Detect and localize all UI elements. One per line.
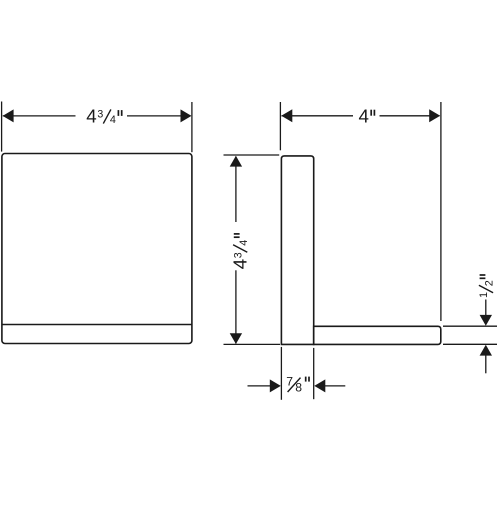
svg-text:4: 4 — [238, 240, 250, 246]
dim A line right segment — [127, 115, 191, 117]
dim C extension line bottom — [224, 343, 281, 345]
dim C arrow up — [230, 156, 242, 167]
dim A extension line left — [1, 102, 3, 152]
svg-text:2: 2 — [484, 280, 496, 286]
svg-text:4: 4 — [110, 114, 116, 126]
side view shelf profile — [314, 326, 441, 344]
dim C line upper segment — [235, 157, 237, 223]
dim A label 4 3/4 inch — [86, 106, 121, 127]
svg-text:3: 3 — [97, 109, 103, 121]
dim B arrow right — [429, 109, 440, 122]
dim D arrow up — [480, 345, 492, 356]
dim E tail left — [248, 385, 271, 387]
dim C label 4 3/4 inch rotated — [229, 234, 250, 269]
dim B arrow left — [281, 109, 292, 122]
dim E extension line left — [280, 347, 282, 400]
svg-text:4: 4 — [86, 106, 96, 127]
dim D line above — [485, 300, 487, 317]
dim D extension line bottom — [443, 343, 497, 345]
dim A extension line right — [191, 102, 193, 152]
dim D label 1/2 inch rotated — [478, 275, 496, 298]
dim E label 7/8 inch — [286, 374, 309, 394]
dim B extension line left — [279, 102, 281, 150]
dim E tail right — [325, 385, 345, 387]
dim E arrow left-pointing — [314, 379, 325, 392]
dim B label 4 inch — [359, 106, 375, 127]
svg-text:4: 4 — [359, 106, 369, 127]
svg-text:4: 4 — [229, 259, 250, 269]
front view panel — [2, 154, 192, 344]
side view wall plate — [281, 156, 313, 345]
dim E arrow right-pointing — [270, 379, 281, 392]
front view shelf edge line — [2, 324, 192, 326]
dim A line left segment — [3, 115, 76, 117]
dim D line below — [485, 354, 487, 373]
dim B extension line right — [440, 102, 442, 321]
dim C arrow down — [230, 333, 242, 344]
dim D extension line top — [443, 325, 497, 327]
dim E extension line right — [313, 348, 315, 399]
dim A arrow right — [181, 109, 192, 122]
svg-text:3: 3 — [232, 252, 244, 258]
svg-text:8: 8 — [295, 380, 302, 394]
dim C line lower segment — [235, 270, 237, 343]
dim D arrow down — [480, 315, 492, 326]
dim C extension line top — [224, 154, 280, 156]
svg-text:1: 1 — [478, 292, 490, 298]
dim B line left segment — [282, 115, 354, 117]
dim A arrow left — [3, 109, 14, 122]
dim B line right segment — [380, 115, 440, 117]
